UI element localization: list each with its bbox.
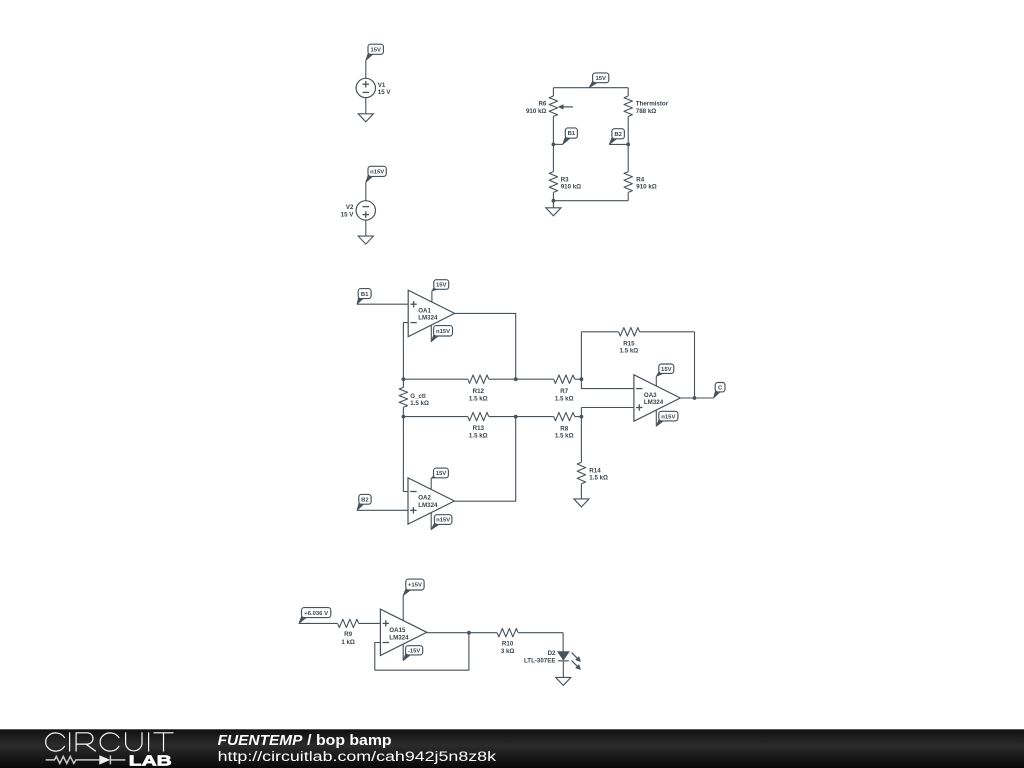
svg-text:-15V: -15V: [408, 648, 421, 654]
svg-text:15V: 15V: [436, 471, 447, 477]
svg-text:+15V: +15V: [408, 583, 422, 589]
svg-text:15V: 15V: [595, 76, 606, 82]
svg-text:/ bop bamp: / bop bamp: [307, 732, 391, 749]
svg-text:LM324: LM324: [389, 634, 409, 641]
svg-text:B2: B2: [614, 132, 622, 138]
svg-text:R13: R13: [473, 425, 485, 432]
svg-text:n15V: n15V: [370, 170, 384, 176]
svg-text:Thermistor: Thermistor: [636, 101, 669, 108]
svg-text:910 kΩ: 910 kΩ: [636, 184, 656, 191]
svg-text:R8: R8: [560, 425, 568, 432]
svg-text:15V: 15V: [436, 283, 447, 289]
svg-text:1.5 kΩ: 1.5 kΩ: [410, 400, 429, 407]
svg-text:FUENTEMP: FUENTEMP: [218, 732, 304, 749]
svg-text:R10: R10: [502, 641, 514, 648]
svg-text:R7: R7: [560, 388, 568, 395]
svg-text:http://circuitlab.com/cah942j5: http://circuitlab.com/cah942j5n8z8k: [218, 749, 498, 765]
svg-text:15 V: 15 V: [341, 211, 355, 218]
svg-text:B1: B1: [361, 292, 369, 298]
svg-text:n15V: n15V: [436, 329, 450, 335]
svg-text:LM324: LM324: [418, 502, 438, 509]
svg-text:R4: R4: [636, 176, 644, 183]
svg-text:LAB: LAB: [129, 753, 172, 768]
svg-text:15V: 15V: [370, 47, 381, 53]
svg-text:3 kΩ: 3 kΩ: [501, 648, 515, 655]
svg-text:1.5 kΩ: 1.5 kΩ: [469, 395, 488, 402]
svg-text:910 kΩ: 910 kΩ: [561, 184, 581, 191]
svg-text:R9: R9: [344, 631, 352, 638]
svg-text:D2: D2: [548, 650, 556, 657]
svg-text:788 kΩ: 788 kΩ: [636, 108, 656, 115]
svg-text:R14: R14: [589, 467, 601, 474]
svg-text:+6.036 V: +6.036 V: [304, 611, 328, 617]
svg-text:15V: 15V: [661, 367, 672, 373]
svg-text:V1: V1: [378, 82, 386, 89]
svg-text:OA2: OA2: [418, 495, 431, 502]
svg-text:B1: B1: [568, 131, 576, 137]
svg-text:1.5 kΩ: 1.5 kΩ: [620, 348, 639, 355]
svg-text:OA15: OA15: [389, 627, 406, 634]
svg-text:LM324: LM324: [644, 399, 664, 406]
svg-text:B2: B2: [361, 497, 369, 503]
svg-text:1.5 kΩ: 1.5 kΩ: [469, 432, 488, 439]
svg-text:R12: R12: [473, 388, 485, 395]
svg-text:1.5 kΩ: 1.5 kΩ: [589, 474, 608, 481]
svg-text:LTL-307EE: LTL-307EE: [524, 657, 556, 664]
svg-text:R6: R6: [538, 101, 546, 108]
svg-text:OA3: OA3: [644, 392, 657, 399]
svg-text:OA1: OA1: [418, 308, 431, 315]
svg-text:n15V: n15V: [436, 518, 450, 524]
svg-text:1 kΩ: 1 kΩ: [341, 639, 355, 646]
svg-text:1.5 kΩ: 1.5 kΩ: [555, 395, 574, 402]
svg-text:R15: R15: [623, 341, 635, 348]
svg-text:V2: V2: [346, 204, 354, 211]
svg-text:910 kΩ: 910 kΩ: [526, 108, 546, 115]
svg-text:n15V: n15V: [661, 414, 675, 420]
svg-text:C: C: [718, 385, 723, 391]
svg-text:G_ctl: G_ctl: [410, 393, 426, 400]
svg-text:R3: R3: [561, 176, 569, 183]
svg-text:15 V: 15 V: [378, 89, 392, 96]
svg-text:LM324: LM324: [418, 315, 438, 322]
svg-text:1.5 kΩ: 1.5 kΩ: [555, 432, 574, 439]
